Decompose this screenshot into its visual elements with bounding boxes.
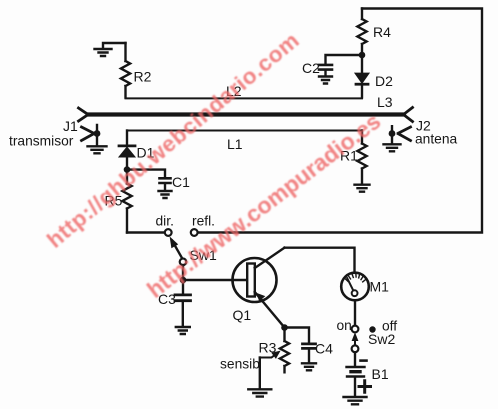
- ground (below C1): [159, 191, 172, 198]
- wire node to C2: [326, 55, 363, 64]
- svg-text:L3: L3: [377, 94, 393, 110]
- node junction emitter/R3/C4: [281, 324, 288, 331]
- wire top-left ground feed: [103, 43, 126, 49]
- wire Sw1 to node: [182, 265, 184, 277]
- resistor R1: [357, 131, 366, 185]
- ground (below R1): [355, 185, 370, 192]
- node junction Sw1/C3/base: [180, 277, 187, 284]
- wire collector to M1: [285, 248, 355, 272]
- svg-text:J1: J1: [63, 118, 78, 134]
- resistor R2: [121, 43, 130, 98]
- resistor R4: [357, 9, 366, 56]
- wire refl to outer loop: [198, 9, 482, 233]
- connector J1 shield: [82, 125, 101, 146]
- svg-text:R3: R3: [259, 340, 277, 356]
- battery B1: [347, 361, 371, 397]
- svg-text:antena: antena: [415, 132, 458, 147]
- wire R5 to dir contact: [127, 231, 165, 233]
- svg-text:on: on: [337, 318, 352, 333]
- svg-text:transmisor: transmisor: [9, 134, 74, 149]
- node junction R4/C2/D2: [359, 52, 366, 59]
- capacitor C2: [319, 65, 332, 76]
- ground (below B1): [344, 397, 367, 404]
- svg-text:L1: L1: [227, 136, 243, 152]
- switch Sw1 dir contact: [165, 229, 172, 236]
- resistor R5: [122, 173, 131, 233]
- wire node to C4: [285, 328, 310, 343]
- connector J2 center pin: [404, 108, 413, 122]
- svg-text:D2: D2: [375, 73, 393, 89]
- switch Sw1 pole contact: [180, 259, 187, 266]
- capacitor C1: [160, 178, 171, 190]
- sensib wiper arrow: [260, 351, 281, 389]
- svg-text:R4: R4: [373, 24, 391, 40]
- svg-text:R2: R2: [134, 69, 152, 85]
- wire main transmission line: [88, 112, 404, 116]
- svg-text:dir.: dir.: [156, 214, 174, 229]
- meter M1: [341, 273, 369, 301]
- diode D2: [355, 55, 368, 97]
- switch Sw1 refl contact: [191, 229, 198, 236]
- wire M1 to Sw2: [354, 301, 356, 326]
- svg-text:C2: C2: [302, 60, 320, 76]
- connector J1 center pin: [79, 108, 88, 121]
- switch Sw2 off contact: [369, 326, 375, 332]
- svg-text:Q1: Q1: [233, 307, 252, 323]
- ground (below J1): [88, 146, 107, 153]
- switch Sw2 arm with arrow: [352, 332, 359, 345]
- svg-text:refl.: refl.: [192, 214, 215, 229]
- wire base of Q1: [183, 279, 247, 281]
- ground (below sensib): [248, 389, 271, 396]
- ground (below C2): [319, 77, 332, 84]
- wire Sw2 to B1: [354, 352, 356, 365]
- wire L1 to D1: [126, 131, 128, 144]
- svg-text:C4: C4: [315, 341, 333, 357]
- svg-text:Sw2: Sw2: [368, 331, 395, 347]
- connector J2 shield: [389, 126, 411, 143]
- svg-text:sensib: sensib: [220, 357, 260, 372]
- svg-text:M1: M1: [370, 279, 390, 295]
- svg-text:C1: C1: [172, 174, 190, 190]
- wire L2 coupling line: [126, 97, 363, 99]
- node junction D1/R5/C1: [124, 166, 131, 173]
- switch Sw2 pole contact: [352, 345, 359, 352]
- ground (below C4): [302, 363, 316, 370]
- ground (top-left near R2): [95, 49, 112, 56]
- capacitor C3: [175, 280, 191, 326]
- wire L1 coupling line: [127, 130, 362, 132]
- ground (below J2): [384, 144, 401, 151]
- ground (below C3): [176, 327, 190, 334]
- transistor Q1: [233, 248, 285, 328]
- switch Sw1 arm with arrow: [170, 236, 183, 259]
- wire node to C1: [127, 170, 165, 177]
- diode D1: [119, 146, 135, 167]
- resistor R3: [280, 328, 289, 373]
- capacitor C4: [303, 344, 316, 363]
- svg-text:B1: B1: [372, 366, 389, 382]
- switch Sw2 on contact: [352, 326, 359, 333]
